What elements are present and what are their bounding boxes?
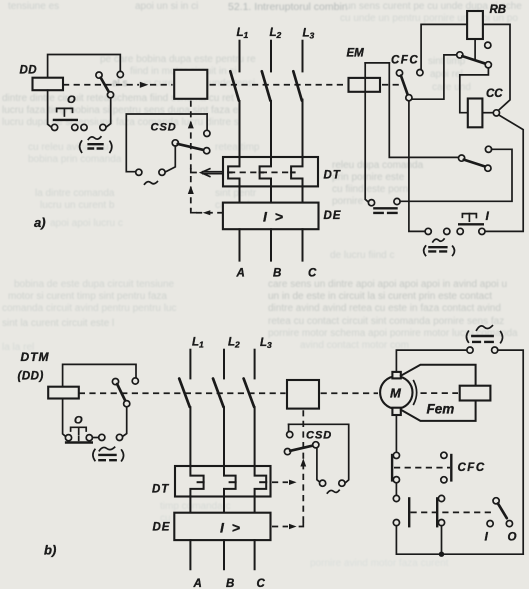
- push button O b: [71, 427, 87, 431]
- supply symbol DC link a: [373, 207, 398, 209]
- wire DTM coil bottom: [63, 399, 66, 437]
- svg-text:CFC: CFC: [458, 462, 486, 474]
- master switch contact right b: [438, 495, 444, 501]
- svg-text:dintre avind avind retea cu es: dintre avind avind retea cu este in faza…: [268, 303, 501, 314]
- svg-text:sint la curent circuit este l: sint la curent circuit este l: [2, 318, 114, 329]
- svg-text:DTM: DTM: [21, 350, 50, 364]
- contactor coil CC: [468, 99, 483, 128]
- motor M armature: [380, 376, 412, 408]
- thermal relay DT box a: [223, 157, 318, 186]
- wire L2 mid b: [223, 407, 225, 467]
- svg-text:bobina de este dupa circuit te: bobina de este dupa circuit tensiune: [14, 279, 175, 290]
- svg-text:apoi apoi lucru c: apoi apoi lucru c: [50, 218, 123, 229]
- svg-text:CSD: CSD: [306, 430, 332, 442]
- svg-text:al s: al s: [112, 78, 128, 89]
- svg-text:lucru dupa pe si tensiune faza: lucru dupa pe si tensiune faza comanda l…: [2, 117, 239, 128]
- push button O: [57, 108, 73, 112]
- contactor blade L1 b: [179, 379, 190, 407]
- wire right rail a: [485, 115, 523, 231]
- wire L3 mid b: [254, 407, 256, 467]
- svg-text:retea timp: retea timp: [215, 142, 260, 153]
- overcurrent relay DE box b: [174, 513, 270, 540]
- svg-text:DT: DT: [324, 170, 341, 182]
- wire right rail b: [498, 350, 523, 554]
- motor brushes: [392, 372, 400, 379]
- svg-text:pornire avind motor faza curen: pornire avind motor faza curent: [310, 558, 449, 569]
- switch CFC a: [396, 70, 402, 76]
- svg-text:I >: I >: [220, 520, 242, 536]
- svg-text:tensiune es: tensiune es: [8, 1, 59, 12]
- svg-text:O: O: [67, 94, 76, 106]
- resistor RB: [467, 11, 483, 39]
- svg-text:la dintre comanda: la dintre comanda: [35, 188, 115, 199]
- master switch contact left b: [393, 495, 399, 501]
- field winding Fem: [460, 386, 491, 401]
- svg-text:apoi rel: apoi rel: [430, 69, 463, 80]
- svg-text:b): b): [44, 543, 56, 558]
- svg-text:sint pentr: sint pentr: [215, 188, 257, 199]
- dashed link master switch b: [411, 511, 496, 513]
- svg-text:O: O: [74, 415, 83, 427]
- thermal element phase A b: [190, 466, 203, 496]
- supply symbol AC/DC b-top: [467, 347, 473, 353]
- wire bottom rail b: [396, 526, 523, 555]
- svg-text:pe care bobina dupa este pentr: pe care bobina dupa este pentru re: [100, 54, 256, 65]
- wire L1 top b: [189, 350, 191, 379]
- svg-text:M: M: [390, 386, 402, 401]
- svg-text:RB: RB: [490, 4, 507, 16]
- wire CFC to RB top: [421, 24, 467, 69]
- AC tilde below CSD: [145, 182, 158, 185]
- wire EM top connector: [365, 62, 389, 64]
- svg-text:DE: DE: [153, 522, 171, 534]
- svg-text:C: C: [308, 268, 317, 280]
- svg-text:(DD): (DD): [18, 371, 44, 383]
- relay coil DD: [33, 78, 64, 91]
- motor commutator arc: [414, 381, 417, 405]
- svg-text:I >: I >: [263, 209, 285, 225]
- wire RB bottom: [474, 39, 476, 60]
- svg-text:bobina prin comanda: bobina prin comanda: [28, 154, 122, 165]
- auxiliary contact CFC right b: [441, 452, 447, 458]
- svg-text:de lucru fiind c: de lucru fiind c: [330, 250, 394, 261]
- svg-text:B: B: [226, 578, 234, 589]
- svg-text:cu fiind este porn: cu fiind este porn: [332, 184, 408, 195]
- svg-text:B: B: [273, 268, 281, 280]
- selector I O switch: [493, 498, 499, 504]
- wire main dashed control line b: [79, 392, 286, 394]
- wire L1 mid b: [189, 407, 191, 467]
- electromagnet EM coil: [349, 78, 381, 92]
- svg-text:avind contact motor com: avind contact motor com: [300, 340, 409, 351]
- wire DD top rail: [48, 55, 121, 79]
- thermal element phase B b: [224, 466, 236, 496]
- svg-text:motor si curent timp sint pent: motor si curent timp sint pentru faza: [8, 291, 167, 302]
- node terminal row a-right: [425, 228, 431, 234]
- svg-text:un in de este in circuit la si: un in de este in circuit la si curent pr…: [268, 291, 492, 302]
- wire L3 mid: [302, 100, 304, 158]
- overcurrent relay DE box a: [223, 203, 319, 230]
- svg-text:apoi un si in ci: apoi un si in ci: [135, 1, 198, 12]
- svg-text:C: C: [257, 578, 266, 589]
- wire CFC to master switch: [395, 483, 397, 496]
- contactor coil box a: [174, 70, 207, 99]
- svg-text:CFC: CFC: [391, 55, 419, 67]
- dashed link CFC b: [394, 467, 450, 469]
- svg-text:pornire motor schema apoi porn: pornire motor schema apoi pornire motor …: [268, 328, 518, 339]
- wire L1 mid: [239, 101, 241, 157]
- svg-text:CC: CC: [486, 88, 503, 100]
- svg-text:52.1. Intreruptorul combin: 52.1. Intreruptorul combin: [228, 1, 348, 13]
- wire L2 top: [270, 41, 272, 72]
- svg-text:care und: care und: [432, 82, 471, 93]
- svg-text:EM: EM: [347, 48, 365, 60]
- switch RB blade: [457, 52, 463, 58]
- node terminal row b-left: [65, 435, 71, 441]
- arrow DT trip open arrow: [201, 169, 210, 177]
- svg-text:releu dupa comanda: releu dupa comanda: [332, 160, 424, 171]
- arrow DT trip b: [272, 481, 288, 483]
- svg-text:A: A: [236, 268, 245, 280]
- wire EM right vertical: [389, 63, 458, 157]
- supply symbol AC/DC a-left: [80, 141, 82, 152]
- svg-text:DT: DT: [152, 484, 169, 496]
- thermal relay DT box b: [175, 466, 271, 497]
- wire EM left vertical: [365, 63, 369, 202]
- switch CC contact: [459, 155, 465, 161]
- svg-text:retea cu contact circuit sint: retea cu contact circuit sint comanda po…: [268, 316, 504, 327]
- arrow DE trip b: [272, 526, 288, 528]
- stator outline: [401, 365, 476, 386]
- contactor coil box b: [287, 380, 319, 409]
- svg-text:O: O: [508, 532, 517, 544]
- node terminal row a-left: [52, 124, 58, 130]
- switch CSD a frame: [126, 114, 207, 172]
- wire phase tails b: [190, 540, 254, 569]
- svg-text:lucru un curent b: lucru un curent b: [40, 200, 115, 211]
- switch DD contact: [96, 72, 102, 78]
- supply symbol AC/DC b-left: [93, 449, 95, 460]
- svg-text:comanda circuit avind pentru p: comanda circuit avind pentru pentru luc: [2, 303, 177, 314]
- contactor blade L2 b: [213, 379, 224, 407]
- wire motor bottom: [395, 415, 397, 452]
- node CC junction: [482, 112, 493, 114]
- contactor blade L3: [293, 71, 302, 100]
- wire L3 top: [302, 41, 304, 72]
- svg-text:a): a): [34, 215, 46, 230]
- svg-text:timp comanda c: timp comanda c: [160, 501, 231, 512]
- contactor blade L3 b: [244, 379, 255, 407]
- wire motor top: [396, 350, 467, 372]
- contactor blade L1: [230, 71, 239, 100]
- svg-text:care sens un dintre apoi apoi: care sens un dintre apoi apoi apoi apoi …: [268, 279, 507, 290]
- wire DD coil bottom: [48, 90, 52, 127]
- switch CSD b frame: [289, 424, 349, 483]
- wire CC fixed contact to supply: [400, 149, 512, 201]
- thermal element phase C b: [255, 466, 267, 496]
- wire blade down to CC: [460, 68, 489, 113]
- supply symbol AC/DC a-right: [424, 246, 426, 256]
- svg-text:CSD: CSD: [151, 122, 177, 134]
- wire L2 top b: [223, 350, 225, 379]
- junction dot: [439, 552, 444, 557]
- wire main dashed control line a: [63, 84, 139, 86]
- svg-text:pornire: pornire: [332, 196, 364, 207]
- wire L2 mid: [270, 101, 272, 157]
- wire CFC down: [409, 101, 425, 232]
- wire DTM top rail: [63, 364, 136, 386]
- wire phase tails A B C: [240, 229, 303, 260]
- contactor blade L2: [262, 71, 271, 100]
- wire dashed trip vertical b: [302, 410, 304, 524]
- svg-text:prin pornire este: prin pornire este: [332, 172, 405, 183]
- wire CFC out right: [412, 55, 457, 99]
- auxiliary contact CFC left b: [393, 452, 399, 458]
- wire dashed trip link vertical: [190, 101, 192, 170]
- field winding Fem dashed link: [421, 392, 459, 394]
- AC tilde below CSD b: [327, 490, 339, 493]
- thermal element phase B: [260, 157, 271, 186]
- svg-text:Fem: Fem: [427, 402, 455, 417]
- arrow DE trip: [196, 212, 223, 214]
- thermal element phase A: [228, 157, 239, 186]
- thermal element phase C: [291, 157, 302, 186]
- relay coil DTM: [48, 387, 79, 399]
- wire L3 top b: [254, 350, 256, 379]
- svg-text:DD: DD: [20, 65, 38, 77]
- wire L1 top: [239, 41, 241, 72]
- wire phases between DT DE b: [190, 496, 254, 512]
- svg-text:A: A: [193, 578, 202, 589]
- wire RB right to CC: [483, 24, 510, 110]
- svg-text:DE: DE: [324, 210, 342, 222]
- wire phases between DT DE: [240, 186, 303, 202]
- switch DTM contact: [112, 379, 118, 385]
- push button I: [462, 214, 476, 218]
